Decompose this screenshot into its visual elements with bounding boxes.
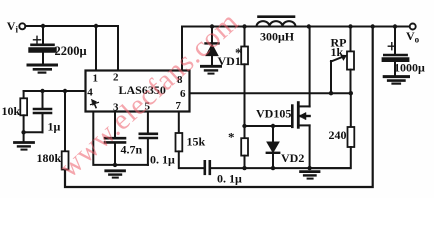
wire gate line [245,125,293,127]
svg-text:4: 4 [87,87,93,99]
node coil-right junction [307,24,311,28]
svg-text:1k: 1k [331,45,344,59]
wire drain riser [309,27,311,107]
node R-star-bottom junction [242,166,246,170]
ground input-cap [28,65,57,73]
svg-text:0. 1μ: 0. 1μ [217,172,242,186]
node 180k junction [63,89,67,93]
svg-text:10k: 10k [2,104,21,118]
svg-text:4.7n: 4.7n [121,143,143,157]
resistor R-240 [312,93,355,168]
node VD2 top junction [271,124,275,128]
wire pin4 stub [24,90,86,92]
node RP bottom junction [349,91,353,95]
wire case pin drop [93,112,148,165]
terminal Vo [410,24,416,30]
node input-cap junction [41,24,45,28]
ground 4.7n [106,171,125,178]
wire pin6 feedback line [190,92,351,94]
node out-cap junction [393,24,397,28]
node source ground junction [307,166,311,170]
ground out-cap [384,77,408,84]
resistor R-15k [176,112,204,169]
svg-text:1μ: 1μ [48,120,61,134]
svg-text:*: * [235,45,242,60]
svg-text:1: 1 [93,73,99,85]
svg-text:VD2: VD2 [281,151,304,165]
op IC box U1 LAS6350 [86,71,190,112]
svg-text:www.elecfans.com: www.elecfans.com [53,6,245,184]
capacitor C-1u [24,91,51,132]
svg-text:300μH: 300μH [260,30,295,44]
capacitor C-0.1u pin5 [140,112,157,165]
node sense-line junction [371,24,375,28]
node 10k-1u junction [21,130,25,134]
svg-text:VD105: VD105 [256,107,291,121]
ground source [301,172,319,179]
svg-text:0. 1μ: 0. 1μ [150,153,175,167]
resistor R-star-bottom [241,126,248,168]
node R-star-top junction [242,24,246,28]
svg-text:2200μ: 2200μ [55,44,87,58]
resistor R-10k [20,91,27,143]
svg-text:15k: 15k [187,135,206,149]
svg-text:*: * [228,130,235,145]
wire Vo sense right side [65,27,373,188]
wire input rail [25,25,118,27]
svg-text:Vi: Vi [7,19,19,35]
node gate-R junction [242,124,246,128]
svg-text:7: 7 [176,100,182,112]
capacitor C-0.1u series [205,161,350,174]
capacitor C-4.7n [105,112,125,165]
svg-text:6: 6 [180,88,186,100]
node 4.7n ground junction [113,163,117,167]
ground 10k [15,143,34,150]
node RP-top junction [348,24,352,28]
node 1u junction [40,89,44,93]
diode VD1 [206,27,219,65]
node VD2 bottom junction [271,166,275,170]
transistor VD105 [292,103,309,128]
case arrow symbol [91,99,99,107]
inductor L 300uH [257,17,296,27]
resistor R-star-top [241,27,248,127]
capacitor C-1000u [384,27,407,76]
capacitor C-2200u [31,26,54,64]
svg-text:2: 2 [113,72,119,84]
wire pin2 drop [117,26,119,71]
svg-text:240: 240 [329,128,347,142]
ground VD1 [201,66,220,73]
svg-text:Vo: Vo [406,29,420,45]
node RP wiper junction [329,91,333,95]
diode VD2 [267,126,279,168]
node VD1 junction [210,24,214,28]
terminal Vi [19,23,25,29]
wire source drop [309,125,311,168]
svg-text:1000μ: 1000μ [394,61,425,75]
node pin1 junction [94,24,98,28]
resistor R-180k [62,91,69,170]
wire pin1 drop [95,26,97,71]
potentiometer RP [331,27,354,94]
wire pin8 riser [182,27,410,71]
